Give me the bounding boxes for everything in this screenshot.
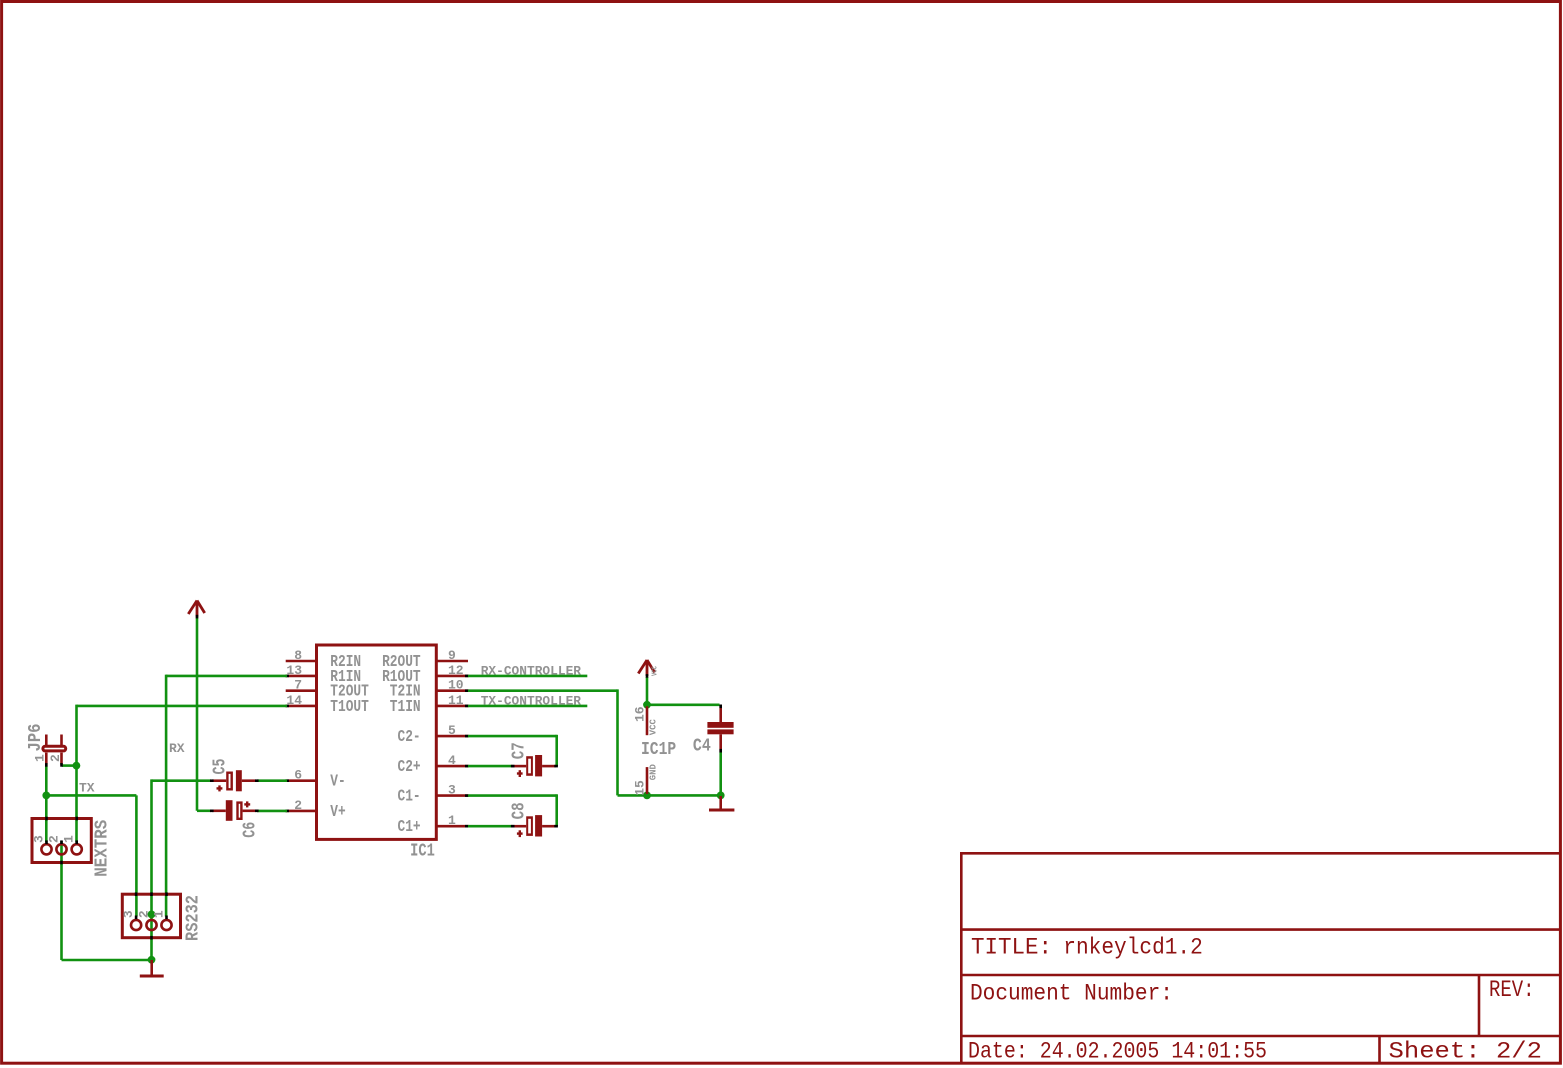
NEXTRS name label	[93, 820, 113, 877]
IC1 pin name V-	[330, 772, 345, 791]
svg-text:Sheet: 2/2: Sheet: 2/2	[1389, 1039, 1543, 1065]
svg-text:IC1: IC1	[410, 842, 435, 862]
svg-text:C2+: C2+	[398, 757, 421, 776]
C7 name label	[510, 742, 530, 759]
IC1 pin name T2OUT	[330, 682, 369, 701]
wire net T2IN horizontal from IC1 pin 10	[468, 689, 618, 692]
jumper JP6 pin 2	[60, 735, 63, 767]
IC1 pin number 7	[294, 678, 302, 693]
IC1P pin 15 GND lead	[646, 767, 649, 794]
IC1 pin name T1OUT	[330, 697, 369, 716]
tick RS232 box top crossing pin3	[135, 892, 138, 896]
net label RX	[169, 741, 185, 756]
wire net C2+ from IC1 pin 4 to C7	[468, 765, 513, 768]
C7 plus sign	[517, 770, 523, 777]
svg-text:C1-: C1-	[398, 787, 421, 806]
svg-text:TITLE:: TITLE:	[971, 935, 1052, 961]
jumper JP6 body bar	[43, 746, 66, 751]
svg-text:TX: TX	[79, 781, 95, 796]
C5 name label	[211, 759, 231, 775]
svg-text:8: 8	[294, 648, 302, 663]
svg-text:C1+: C1+	[398, 817, 421, 836]
svg-text:7: 7	[294, 678, 302, 693]
IC1 pin name C1-	[398, 787, 421, 806]
junction VCC at IC1P pin 16	[643, 701, 651, 709]
wire from C4 bottom terminal down to GND junction	[719, 752, 722, 795]
capacitor C8	[511, 815, 558, 836]
IC1 pin name R2OUT	[382, 652, 421, 671]
wire net C1- from IC1 pin 3	[468, 794, 557, 797]
JP6 pin number 2	[48, 754, 63, 762]
svg-text:Date: 24.02.2005 14:01:55: Date: 24.02.2005 14:01:55	[968, 1039, 1267, 1065]
IC1 pin name C2-	[398, 727, 421, 746]
IC1P pin name VCC	[649, 719, 659, 736]
NEXTRS pin number 1	[62, 835, 77, 843]
connector NEXTRS pin 1 pad	[72, 840, 82, 854]
IC1 pin 8 (R2IN) lead	[286, 660, 318, 663]
wire net TX vertical down to RS232 pin 3	[135, 795, 138, 916]
IC1 pin number 4	[448, 753, 456, 768]
net label TX	[79, 781, 95, 796]
RS232 pin number 1	[152, 910, 167, 918]
wire net C2- vertical to C7	[555, 735, 558, 766]
wire GND net NEXTRS pin 2 vertical	[60, 841, 63, 960]
svg-text:RX-CONTROLLER: RX-CONTROLLER	[481, 664, 581, 679]
svg-text:13: 13	[286, 663, 302, 678]
connector RS232 pin 2 pad	[146, 920, 156, 930]
svg-text:2: 2	[48, 754, 63, 762]
wire net C2- from IC1 pin 5	[468, 735, 557, 738]
wire net T1OUT horizontal from IC1 pin 14	[77, 705, 288, 708]
svg-text:RS232: RS232	[183, 895, 203, 941]
svg-text:C2-: C2-	[398, 727, 421, 746]
IC1 pin number 9	[448, 648, 456, 663]
NEXTRS pin number 3	[31, 835, 46, 843]
wire JP6 pin 2 stub to junction	[62, 764, 77, 767]
C6 name label	[241, 822, 261, 838]
wire net TX horizontal	[46, 794, 136, 797]
tick RS232 box top crossing pin1	[165, 892, 168, 896]
IC1 pin 2 (V+) lead	[285, 810, 318, 813]
svg-text:16: 16	[632, 706, 647, 722]
supply symbol VCC right arrow	[638, 660, 654, 678]
IC1 pin name T1IN	[390, 697, 421, 716]
junction T1OUT / JP6.2	[73, 762, 81, 770]
connector RS232 body	[122, 894, 180, 938]
IC1 pin name R2IN	[330, 652, 361, 671]
IC1 pin 7 (T2OUT) lead	[286, 689, 318, 692]
C4 name label	[693, 737, 711, 757]
title block title value rnkeylcd1.2	[1063, 935, 1203, 961]
tick RS232 box top crossing pin2	[150, 892, 153, 896]
svg-text:1: 1	[448, 813, 456, 828]
title block outline	[960, 853, 1560, 1062]
capacitor C7	[511, 755, 558, 776]
C8 plus sign	[517, 830, 523, 837]
junction TX	[42, 792, 50, 800]
svg-text:C6: C6	[241, 822, 261, 838]
wire V- from C5 to IC1 pin 6	[257, 779, 287, 782]
svg-text:6: 6	[294, 768, 302, 783]
title block Document Number label	[970, 981, 1173, 1007]
svg-text:C4: C4	[693, 737, 711, 757]
IC1P pin number 16	[632, 706, 647, 722]
wire net T1OUT vertical down to NEXTRS pin 1	[75, 705, 78, 843]
wire net C1+ from IC1 pin 1 to C8	[468, 825, 513, 828]
junction GND at RS232 pin 2	[148, 911, 156, 919]
svg-text:JP6: JP6	[26, 724, 46, 752]
IC1 pin number 5	[448, 723, 456, 738]
wire GND net C5 horizontal	[152, 779, 211, 782]
wire net TX-CONTROLLER from IC1 pin 11	[468, 705, 587, 708]
RS232 pin number 2	[137, 910, 152, 918]
connector RS232 pin 1 pad	[161, 916, 171, 931]
IC1 pin 12 (R1OUT) lead	[435, 675, 469, 678]
wire VCC right vertical below arrow	[646, 677, 649, 705]
IC1 pin 10 (T2IN) lead	[435, 689, 469, 692]
svg-text:rnkeylcd1.2: rnkeylcd1.2	[1063, 935, 1203, 961]
IC1 pin number 14	[286, 693, 302, 708]
svg-text:12: 12	[448, 663, 464, 678]
IC1 pin name R1IN	[330, 667, 361, 686]
IC1 pin name C1+	[398, 817, 421, 836]
IC1P pin name GND	[649, 764, 659, 781]
svg-text:3: 3	[121, 910, 136, 918]
capacitor C4	[707, 705, 733, 753]
IC1P name label	[641, 740, 676, 760]
IC1 pin 13 (R1IN) lead	[285, 675, 318, 678]
svg-text:14: 14	[286, 693, 302, 708]
RS232 pin number 3	[121, 910, 136, 918]
IC1 name label	[410, 842, 435, 862]
svg-text:Document Number:: Document Number:	[970, 981, 1173, 1007]
svg-text:REV:: REV:	[1489, 977, 1535, 1003]
IC1 pin 1 (C1+) lead	[435, 825, 469, 828]
svg-text:2: 2	[137, 910, 152, 918]
wire net TX vertical JP6 pin 1 down to NEXTRS pin 3	[45, 765, 48, 842]
wire net RX-CONTROLLER from IC1 pin 12	[468, 675, 587, 678]
wire VCC left horizontal to C6	[197, 809, 211, 812]
svg-text:TX-CONTROLLER: TX-CONTROLLER	[481, 694, 581, 709]
connector NEXTRS pin 3 pad	[41, 840, 51, 854]
IC1 pin 5 (C2-) lead	[435, 735, 469, 738]
svg-text:5: 5	[448, 723, 456, 738]
IC1 pin number 6	[294, 768, 302, 783]
junction GND at ground symbol	[148, 956, 156, 964]
capacitor C6	[210, 800, 259, 821]
svg-text:C5: C5	[211, 759, 231, 775]
IC1 pin name T2IN	[390, 682, 421, 701]
wire net T2IN horizontal to IC1P pin 15	[618, 794, 648, 797]
IC1 pin number 10	[448, 678, 464, 693]
net label RX-CONTROLLER	[481, 664, 581, 679]
wire net T2IN vertical	[616, 689, 619, 795]
wire GND net horizontal to ground junction	[62, 959, 152, 962]
svg-text:3: 3	[31, 835, 46, 843]
title block TITLE label	[971, 935, 1052, 961]
svg-text:2: 2	[294, 798, 302, 813]
junction at C4 bottom	[717, 792, 725, 800]
net label TX-CONTROLLER	[481, 694, 581, 709]
connector RS232 pin 3 pad	[131, 916, 141, 931]
tick NEXTRS box top crossing pin3	[45, 817, 48, 821]
svg-text:15: 15	[632, 780, 647, 796]
IC1 pin 9 (R2OUT) lead	[435, 660, 468, 663]
IC1 pin number 1	[448, 813, 456, 828]
svg-text:V+: V+	[330, 802, 345, 821]
RS232 name label	[183, 895, 203, 941]
title block date	[968, 1039, 1267, 1065]
IC1 pin number 13	[286, 663, 302, 678]
wire net R1IN vertical down to RS232 pin 1	[165, 675, 168, 917]
title block sheet number	[1389, 1039, 1543, 1065]
tick NEXTRS box bottom crossing pin2	[60, 861, 63, 865]
IC1 pin name R1OUT	[382, 667, 421, 686]
C5 plus sign	[217, 785, 223, 791]
IC1P pin 16 VCC lead	[646, 706, 649, 735]
IC1 pin 14 (T1OUT) lead	[285, 705, 318, 708]
svg-text:T1IN: T1IN	[390, 697, 421, 716]
IC1 pin name C2+	[398, 757, 421, 776]
tick NEXTRS box top crossing pin1	[75, 817, 78, 821]
svg-text:10: 10	[448, 678, 464, 693]
ground symbol right	[709, 796, 734, 810]
svg-text:C7: C7	[510, 742, 530, 759]
IC1 pin 6 (V-) lead	[285, 779, 318, 782]
svg-text:2: 2	[46, 835, 61, 843]
svg-text:1: 1	[33, 754, 48, 762]
connector NEXTRS body	[32, 819, 91, 863]
wire net C1- vertical to C8	[555, 794, 558, 826]
tick RS232 box bottom crossing pin2	[150, 936, 153, 940]
VCC right tiny label	[652, 666, 660, 676]
IC1 pin 3 (C1-) lead	[435, 794, 469, 797]
svg-text:GND: GND	[649, 764, 659, 781]
IC1P pin number 15	[632, 780, 647, 796]
svg-text:4: 4	[448, 753, 456, 768]
svg-text:1: 1	[62, 835, 77, 843]
svg-text:VCC: VCC	[652, 666, 660, 676]
junction at IC1P pin 15	[643, 792, 651, 800]
svg-text:RX: RX	[169, 741, 185, 756]
IC1 pin 11 (T1IN) lead	[435, 705, 469, 708]
IC1 pin number 8	[294, 648, 302, 663]
wire GND net vertical to RS232 pin 2	[150, 779, 153, 960]
NEXTRS pin number 2	[46, 835, 61, 843]
svg-text:V-: V-	[330, 772, 345, 791]
svg-text:9: 9	[448, 648, 456, 663]
IC1 pin number 3	[448, 783, 456, 798]
C8 name label	[510, 802, 530, 819]
supply symbol VCC left arrow	[188, 601, 204, 619]
JP6 name label	[26, 724, 46, 752]
IC1 pin 4 (C2+) lead	[435, 765, 469, 768]
connector NEXTRS pin 2 pad	[56, 840, 66, 854]
JP6 pin number 1	[33, 754, 48, 762]
IC1 pin number 11	[448, 693, 464, 708]
svg-text:3: 3	[448, 783, 456, 798]
svg-text:11: 11	[448, 693, 464, 708]
capacitor C5	[210, 770, 259, 791]
svg-text:NEXTRS: NEXTRS	[93, 820, 113, 877]
ground symbol left	[140, 960, 164, 976]
wire VCC left vertical	[196, 617, 199, 811]
IC1 pin number 2	[294, 798, 302, 813]
wire GND right from IC1P pin 15 to C4	[647, 794, 721, 797]
svg-text:1: 1	[152, 910, 167, 918]
wire V+ from C6 to IC1 pin 2	[257, 810, 287, 813]
C6 plus sign	[244, 801, 250, 807]
IC1 pin name V+	[330, 802, 345, 821]
title block REV label	[1489, 977, 1535, 1003]
svg-text:VCC: VCC	[649, 719, 659, 736]
IC IC1 body	[317, 645, 437, 839]
svg-text:C8: C8	[510, 802, 530, 819]
wire net R1IN horizontal from IC1 pin 13	[166, 675, 287, 678]
svg-text:IC1P: IC1P	[641, 740, 676, 760]
svg-text:T1OUT: T1OUT	[330, 697, 369, 716]
jumper JP6 pin 1	[45, 735, 48, 767]
IC1 pin number 12	[448, 663, 464, 678]
wire VCC right horizontal to C4 top	[647, 703, 720, 706]
